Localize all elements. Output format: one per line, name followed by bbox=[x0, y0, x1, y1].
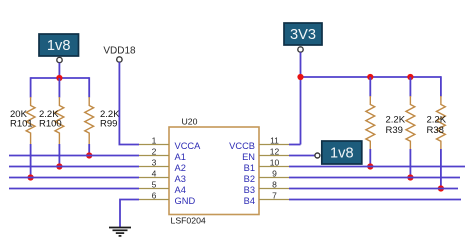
resistor R39 bbox=[406, 96, 415, 149]
svg-text:2: 2 bbox=[152, 146, 157, 156]
wire: B1 net bbox=[289, 166, 465, 168]
svg-text:R99: R99 bbox=[100, 119, 117, 130]
pin 2 A1 bbox=[139, 146, 186, 162]
svg-text:R100: R100 bbox=[39, 119, 62, 130]
wire: A4 net bbox=[9, 188, 139, 190]
wire: VCCB stub to riser bbox=[289, 144, 301, 146]
svg-text:A4: A4 bbox=[175, 185, 186, 195]
svg-text:9: 9 bbox=[272, 168, 277, 178]
svg-text:1: 1 bbox=[152, 135, 157, 145]
power flag VDD18 bbox=[103, 46, 136, 63]
resistor (right, first) bbox=[366, 96, 375, 149]
svg-text:3: 3 bbox=[152, 157, 157, 167]
resistor R99 bbox=[85, 97, 94, 144]
wire: R39 to B2 bbox=[409, 149, 411, 178]
svg-text:LSF0204: LSF0204 bbox=[171, 216, 206, 226]
node: bus/R top junction 1 bbox=[367, 74, 373, 80]
svg-text:2.2K: 2.2K bbox=[386, 115, 406, 126]
wire: B3 net bbox=[289, 188, 458, 190]
node: junction on left bus bbox=[56, 75, 62, 81]
node: bus/R top junction 2 bbox=[407, 74, 413, 80]
wire: R101 bottom to A3 line bbox=[30, 144, 32, 178]
wire: right resistor bus bbox=[301, 76, 441, 78]
svg-text:B2: B2 bbox=[244, 174, 255, 184]
node: bus/3V3 junction bbox=[297, 74, 303, 80]
pin 9 B2 bbox=[244, 168, 289, 184]
svg-text:12: 12 bbox=[270, 146, 280, 156]
wire: bus to R99 top bbox=[88, 77, 90, 97]
power flag 1v8 (EN) bbox=[322, 141, 362, 164]
wire: VDD18 to pin 1 bbox=[119, 62, 139, 144]
wire: left resistor bus bbox=[31, 77, 90, 79]
svg-text:R38: R38 bbox=[427, 125, 444, 136]
svg-text:A3: A3 bbox=[175, 174, 186, 184]
pin 4 A3 bbox=[139, 168, 186, 184]
wire: R38 to B3 bbox=[440, 149, 442, 189]
svg-text:VCCA: VCCA bbox=[175, 141, 202, 151]
svg-text:3V3: 3V3 bbox=[290, 27, 316, 43]
resistor R101 bbox=[26, 97, 35, 144]
svg-text:5: 5 bbox=[152, 179, 157, 189]
wire: 3V3 drop to VCCB bbox=[300, 52, 302, 144]
svg-text:4: 4 bbox=[152, 168, 157, 178]
op-amp U20 body bbox=[169, 117, 259, 226]
node: EN no-connect style circle bbox=[315, 153, 320, 158]
wire: EN to circle bbox=[289, 155, 315, 157]
wire: A1 net bbox=[9, 155, 139, 157]
svg-text:2.2K: 2.2K bbox=[427, 115, 447, 126]
svg-text:U20: U20 bbox=[182, 117, 198, 127]
svg-text:R39: R39 bbox=[386, 125, 403, 136]
wire: B4 net bbox=[289, 199, 461, 201]
resistor R38 bbox=[437, 96, 446, 149]
ground bbox=[109, 228, 131, 236]
pin 11 VCCB bbox=[229, 135, 289, 151]
pin 3 A2 bbox=[139, 157, 186, 173]
svg-text:8: 8 bbox=[272, 179, 277, 189]
svg-text:11: 11 bbox=[270, 135, 279, 145]
wire: bus to R101 top bbox=[30, 77, 32, 97]
node: R101/A3 junction bbox=[28, 174, 34, 180]
svg-text:6: 6 bbox=[152, 190, 157, 200]
node: B1 junction bbox=[367, 163, 373, 169]
svg-text:EN: EN bbox=[242, 152, 255, 162]
node: R100/A2 junction bbox=[56, 163, 62, 169]
wire: first right resistor to B1 bbox=[369, 149, 371, 167]
pin 10 B1 bbox=[244, 157, 289, 173]
node: B3 junction bbox=[438, 185, 444, 191]
svg-text:B1: B1 bbox=[244, 163, 255, 173]
power flag 1v8 (left) bbox=[39, 34, 79, 63]
wire: bus drop to R38 bbox=[440, 76, 442, 96]
svg-text:GND: GND bbox=[175, 196, 196, 206]
wire: B2 net bbox=[289, 177, 460, 179]
wire: R100 bottom to A2 line bbox=[58, 144, 60, 167]
wire: bus drop to R39 bbox=[409, 77, 411, 97]
svg-text:VCCB: VCCB bbox=[229, 141, 255, 151]
svg-text:A1: A1 bbox=[175, 152, 186, 162]
node: R99/A1 junction bbox=[86, 152, 92, 158]
svg-text:10: 10 bbox=[270, 157, 280, 167]
svg-text:1v8: 1v8 bbox=[47, 38, 71, 54]
wire: R99 bottom to A1 line bbox=[88, 144, 90, 156]
pin 8 B3 bbox=[244, 179, 289, 195]
wire: 1v8 drop to left bus bbox=[58, 63, 60, 78]
wire: bus to R100 top bbox=[58, 78, 60, 98]
wire: A3 net bbox=[9, 177, 139, 179]
wire: bus drop to first right resistor bbox=[369, 77, 371, 97]
svg-text:VDD18: VDD18 bbox=[103, 46, 136, 57]
svg-text:A2: A2 bbox=[175, 163, 186, 173]
pin 1 VCCA bbox=[139, 135, 201, 151]
svg-text:B3: B3 bbox=[244, 185, 255, 195]
svg-text:1v8: 1v8 bbox=[330, 146, 354, 162]
svg-text:7: 7 bbox=[272, 190, 277, 200]
power flag 3V3 bbox=[284, 23, 322, 52]
pin 7 B4 bbox=[244, 190, 289, 206]
pin 5 A4 bbox=[139, 179, 186, 195]
resistor R100 bbox=[55, 97, 64, 144]
pin 6 GND bbox=[139, 190, 195, 206]
svg-text:R101: R101 bbox=[10, 119, 33, 130]
wire: A2 net bbox=[9, 166, 139, 168]
pin 12 EN bbox=[242, 146, 289, 162]
wire: GND pin to ground bbox=[120, 200, 139, 228]
node: B2 junction bbox=[407, 174, 413, 180]
svg-text:B4: B4 bbox=[244, 196, 255, 206]
